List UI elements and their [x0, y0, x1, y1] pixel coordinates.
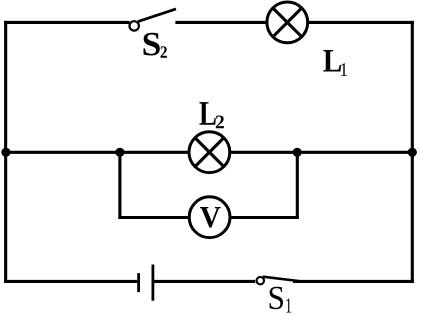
wire: voltmeter branch left vertical	[118, 152, 121, 219]
wire: top wire right segment	[308, 21, 414, 24]
wire: bottom wire right segment	[293, 280, 414, 283]
lamp L1	[267, 2, 308, 43]
wire: middle wire right segment	[230, 151, 414, 154]
wire: voltmeter branch bottom-left horizontal	[118, 216, 190, 219]
wire: right rail	[411, 21, 414, 283]
node: junction dot left of L2	[115, 148, 124, 157]
label L1	[323, 50, 347, 76]
switch S2	[130, 9, 177, 31]
wire: top wire middle segment	[175, 21, 268, 24]
lamp L2	[189, 132, 230, 173]
wire: left rail	[4, 21, 7, 283]
switch S1	[257, 277, 299, 285]
label S2	[144, 33, 167, 58]
node: junction dot left rail	[1, 148, 10, 157]
wire: voltmeter branch right vertical	[296, 152, 299, 219]
wire: bottom wire middle segment	[154, 280, 255, 283]
battery: short plate (negative)	[137, 273, 140, 292]
voltmeter V	[189, 197, 230, 238]
node: junction dot right of L2	[293, 148, 302, 157]
label S1	[270, 287, 292, 313]
wire: middle wire left segment	[4, 151, 190, 154]
wire: bottom wire left segment	[4, 280, 137, 283]
battery: long plate (positive)	[151, 265, 154, 301]
label L2	[199, 102, 224, 128]
wire: top wire left segment	[4, 21, 130, 24]
node: junction dot right rail	[408, 148, 417, 157]
wire: voltmeter branch bottom-right horizontal	[230, 216, 299, 219]
